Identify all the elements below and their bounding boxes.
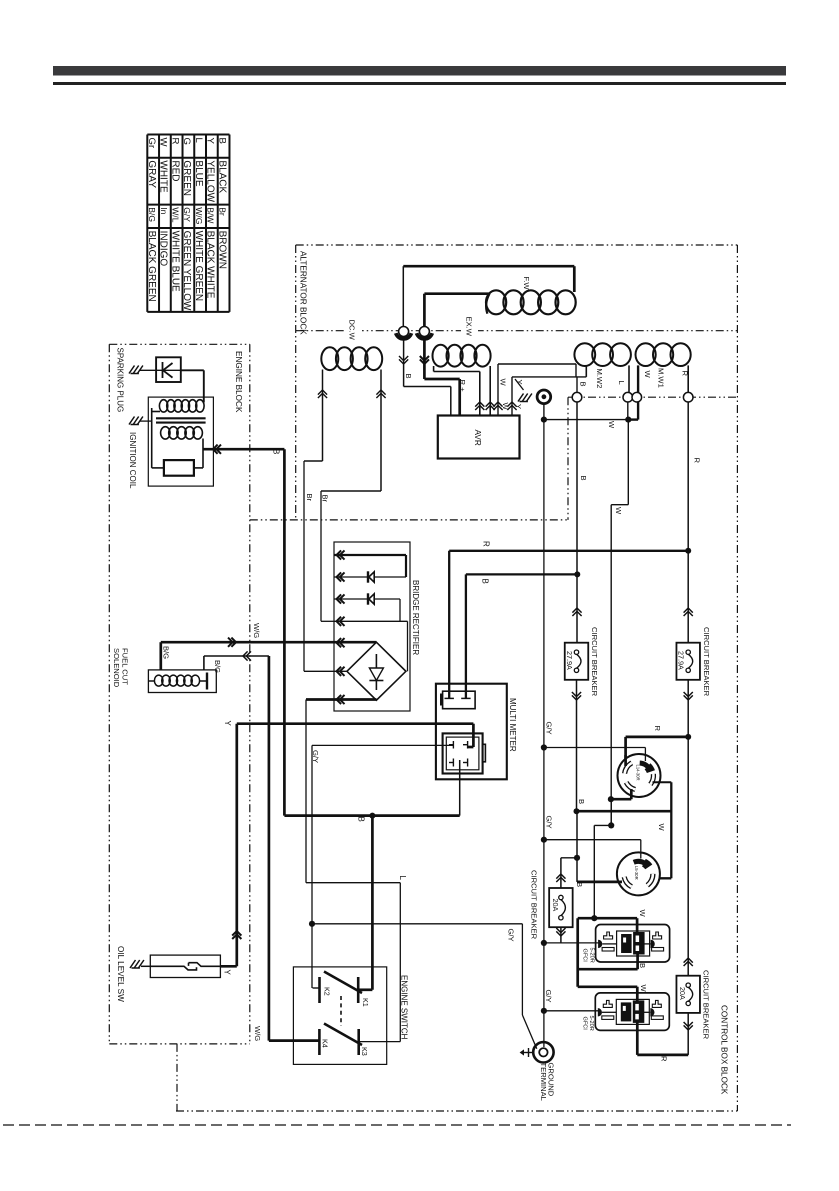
svg-text:YELLOW: YELLOW <box>205 160 216 202</box>
svg-text:OIL LEVEL SW: OIL LEVEL SW <box>116 946 125 1002</box>
wire W from receptacle bottom <box>594 789 631 918</box>
wire B brush to AVR <box>399 338 451 416</box>
svg-text:SOLENOID: SOLENOID <box>112 648 121 688</box>
svg-text:L5-30R: L5-30R <box>634 866 639 880</box>
wire R to receptacle <box>626 737 689 760</box>
svg-text:WHITE GREEN: WHITE GREEN <box>193 231 204 302</box>
svg-text:CIRCUIT BREAKER: CIRCUIT BREAKER <box>529 870 538 940</box>
svg-text:W: W <box>638 910 647 918</box>
wire R multimeter sense <box>449 551 688 699</box>
svg-text:GREEN: GREEN <box>181 160 192 196</box>
wire W/G to bridge rectifier <box>161 638 377 647</box>
diode D2 <box>368 593 374 604</box>
svg-text:L14-30R: L14-30R <box>636 765 641 781</box>
svg-text:B: B <box>579 476 588 481</box>
sparking plug gap electrode ground <box>129 366 143 374</box>
svg-text:Br: Br <box>320 495 329 503</box>
main winding M.W2 <box>574 343 631 392</box>
ignition coil primary winding <box>161 427 203 439</box>
svg-text:B: B <box>357 817 366 822</box>
wire W main <box>611 420 628 826</box>
wire R+ brush to AVR <box>420 338 460 416</box>
svg-text:B/G: B/G <box>147 207 157 222</box>
wire Br2 <box>321 370 386 622</box>
svg-text:W: W <box>614 507 623 515</box>
svg-text:GFCI: GFCI <box>582 949 588 963</box>
ignition coil box <box>148 397 213 486</box>
spark plug cap (diode box) <box>156 357 181 382</box>
svg-text:ALTERNATOR BLOCK: ALTERNATOR BLOCK <box>299 251 308 335</box>
svg-text:B: B <box>577 799 586 804</box>
frame ground of Y <box>515 379 532 402</box>
exciter winding EX.W <box>433 345 495 416</box>
wire W chain to GFCI2 <box>578 987 638 1055</box>
wire G/Y to GFCI1 <box>544 942 599 944</box>
svg-text:20A: 20A <box>678 987 687 1000</box>
svg-text:W: W <box>657 824 666 832</box>
multimeter box <box>436 684 507 780</box>
svg-text:CIRCUIT BREAKER: CIRCUIT BREAKER <box>702 627 711 697</box>
svg-text:G/Y: G/Y <box>182 207 192 222</box>
svg-text:W: W <box>158 138 169 148</box>
bridge connector arrows <box>337 550 345 704</box>
svg-text:BROWN: BROWN <box>216 231 227 269</box>
svg-text:W/G: W/G <box>252 623 261 638</box>
wire Br1 <box>304 370 327 672</box>
svg-text:AVR: AVR <box>473 430 482 446</box>
svg-text:MULTI METER: MULTI METER <box>508 698 517 752</box>
junction R <box>685 548 691 554</box>
coil left common wire <box>151 408 153 468</box>
mechanical link <box>340 996 342 1026</box>
connector at 636.8 <box>632 392 642 402</box>
ignition coil core <box>156 418 206 422</box>
wire L to neutral <box>627 402 629 420</box>
resistor (ignition) <box>152 460 203 476</box>
switch contact K4 <box>318 1029 321 1055</box>
wire colour legend table <box>146 135 229 312</box>
svg-text:B: B <box>404 374 413 379</box>
svg-text:B: B <box>272 449 281 454</box>
wire G/Y to plug <box>312 744 453 746</box>
svg-text:B: B <box>575 882 584 887</box>
svg-text:R: R <box>660 1056 669 1062</box>
svg-text:W/G: W/G <box>253 1026 262 1041</box>
svg-text:F.W: F.W <box>522 277 531 291</box>
svg-text:B: B <box>579 382 588 387</box>
svg-text:G/Y: G/Y <box>544 990 553 1003</box>
svg-text:27.9A: 27.9A <box>565 651 574 670</box>
oil level switch <box>150 955 220 977</box>
svg-text:M.W2: M.W2 <box>595 369 604 389</box>
wire B from plug <box>459 760 461 816</box>
svg-text:R: R <box>681 371 690 377</box>
svg-text:L: L <box>193 138 204 144</box>
wire G/Y to L14 ground pin <box>544 748 646 762</box>
wire R main <box>684 402 693 643</box>
wire R to 20A breaker 2 <box>684 737 693 976</box>
GFCI receptacle 2 <box>595 993 669 1031</box>
svg-text:B: B <box>481 579 490 584</box>
svg-text:GREEN YELLOW: GREEN YELLOW <box>181 231 192 311</box>
wire B to engine switch K1 <box>358 816 372 990</box>
header rule thin <box>53 82 786 85</box>
svg-text:R: R <box>653 726 662 732</box>
bridge rectifier box <box>334 542 410 711</box>
svg-text:R: R <box>482 541 491 547</box>
svg-text:G/Y: G/Y <box>545 722 554 735</box>
oil level switch ground <box>130 960 150 968</box>
wire B multimeter sense <box>466 574 577 698</box>
wire R breaker out <box>684 680 693 737</box>
svg-text:5-20R: 5-20R <box>588 1016 594 1031</box>
wire B ignition output <box>203 445 284 454</box>
wire B M.W2 <box>576 377 578 392</box>
rotor boundary line <box>296 330 738 332</box>
GFCI receptacle 1 <box>596 925 670 963</box>
svg-text:EX.W: EX.W <box>465 317 474 337</box>
circuit breaker 27.9A (B) <box>565 643 589 680</box>
svg-text:B: B <box>216 138 227 144</box>
svg-text:G/Y: G/Y <box>545 816 554 829</box>
wire L from bridge to K3 <box>306 700 400 1042</box>
wire plug to cap <box>140 369 156 371</box>
svg-text:R +: R + <box>458 380 467 393</box>
wire 20A out <box>556 927 565 943</box>
switch contact K2 <box>313 977 320 1003</box>
switch contact K1 <box>324 972 362 1004</box>
wire W to GFCI1 <box>578 918 637 935</box>
svg-text:Y: Y <box>223 721 232 727</box>
slip ring 2 <box>417 294 433 339</box>
wire Y from oil switch <box>220 724 241 967</box>
svg-text:GRAY: GRAY <box>146 160 157 188</box>
control box block bottom border <box>176 1044 737 1111</box>
svg-text:SPARKING PLUG: SPARKING PLUG <box>116 348 125 413</box>
receptacle L14-30R <box>618 754 661 797</box>
svg-text:IGNITION COIL: IGNITION COIL <box>128 432 137 489</box>
svg-text:W: W <box>607 421 616 429</box>
svg-text:B/W: B/W <box>206 207 216 224</box>
svg-text:W: W <box>639 985 648 993</box>
svg-text:L: L <box>617 381 626 385</box>
svg-text:B/G: B/G <box>213 660 222 673</box>
svg-text:27.9A: 27.9A <box>677 651 686 670</box>
connector at 577 <box>572 392 582 402</box>
wire Br1 to bridge <box>304 670 347 672</box>
svg-text:R: R <box>169 138 180 145</box>
wire G/Y to GFCI2 <box>544 1010 598 1012</box>
multimeter connector plug <box>443 733 486 773</box>
svg-text:Y: Y <box>514 404 523 409</box>
svg-text:RED: RED <box>169 160 180 181</box>
svg-text:BRIDGE RECTIFIER: BRIDGE RECTIFIER <box>411 580 420 655</box>
svg-text:W/G: W/G <box>194 207 204 224</box>
wire G/Y multimeter to ground / K2 <box>312 745 537 1048</box>
slip ring 1 <box>396 327 412 339</box>
circuit breaker 27.9A (R) <box>676 643 700 680</box>
engine block border <box>109 344 250 1044</box>
bridge diamond <box>347 642 406 700</box>
svg-text:BLACK GREEN: BLACK GREEN <box>146 231 157 302</box>
junction B <box>574 571 580 577</box>
svg-text:Gr: Gr <box>146 138 157 149</box>
svg-text:5-20R: 5-20R <box>588 948 594 963</box>
svg-text:In: In <box>159 207 169 214</box>
wire neutral bond to W <box>544 419 628 421</box>
bridge internal wiring <box>334 555 408 671</box>
svg-text:Y: Y <box>205 138 216 145</box>
svg-text:R: R <box>693 458 702 464</box>
svg-text:M.W1: M.W1 <box>657 368 666 388</box>
diode D1 <box>368 571 374 582</box>
wire B vertical to engine switch <box>284 449 459 815</box>
svg-text:K4: K4 <box>321 1039 330 1048</box>
bottom dashed separator <box>3 1124 791 1126</box>
multimeter meter terminals <box>440 691 475 709</box>
svg-text:BLUE: BLUE <box>193 160 204 186</box>
svg-text:GFCI: GFCI <box>581 1017 587 1031</box>
svg-text:BLACK: BLACK <box>216 160 227 193</box>
svg-text:G/Y: G/Y <box>311 750 320 763</box>
svg-text:K3: K3 <box>360 1047 369 1056</box>
engine switch box <box>293 967 386 1065</box>
ground terminal <box>520 1042 554 1062</box>
field winding F.W <box>403 266 575 326</box>
svg-text:Y: Y <box>223 970 232 976</box>
svg-text:WHITE BLUE: WHITE BLUE <box>169 231 180 292</box>
wire B main <box>572 402 581 643</box>
neutral bond terminal <box>537 390 551 420</box>
svg-text:B/G: B/G <box>161 646 170 659</box>
main winding M.W1 <box>628 343 690 419</box>
svg-text:W/L: W/L <box>170 207 180 222</box>
junction B <box>369 813 375 819</box>
wire W receptacle right <box>650 782 671 878</box>
AVR box <box>438 416 520 459</box>
svg-text:W: W <box>499 379 508 387</box>
wire cap to ignition coil secondary <box>181 370 204 402</box>
connector at 688.2 <box>683 392 693 402</box>
wire B to L5 bottom <box>577 811 622 882</box>
wire W sense to AVR <box>493 364 576 416</box>
svg-text:CIRCUIT BREAKER: CIRCUIT BREAKER <box>701 970 710 1040</box>
header bar thick <box>53 66 786 76</box>
alternator block border <box>250 245 738 1111</box>
bridge internal diode <box>369 654 383 690</box>
svg-text:W: W <box>643 371 652 379</box>
wire B breaker out <box>572 680 581 811</box>
svg-text:CIRCUIT BREAKER: CIRCUIT BREAKER <box>590 627 599 697</box>
circuit breaker 20A <box>549 888 573 927</box>
primary ground electrode <box>129 417 152 425</box>
wire B chain below GFCI1 <box>578 918 638 987</box>
svg-text:ENGINE BLOCK: ENGINE BLOCK <box>234 351 243 413</box>
svg-text:TERMINAL: TERMINAL <box>539 1063 548 1101</box>
fuel cut solenoid <box>148 670 216 693</box>
junction G/Y <box>309 921 315 927</box>
svg-text:WHITE: WHITE <box>158 160 169 193</box>
svg-text:Br: Br <box>217 207 227 216</box>
svg-text:DC.W: DC.W <box>348 320 357 341</box>
dc winding DC.W <box>321 347 382 370</box>
wire G/Y main vertical <box>543 420 545 1047</box>
svg-text:BLACK WHITE: BLACK WHITE <box>205 231 216 299</box>
svg-text:G/Y: G/Y <box>507 929 516 942</box>
circuit breaker 20A (R) <box>676 976 700 1013</box>
wire to 20A breaker <box>556 858 577 888</box>
wire B/G solenoid left <box>159 642 162 670</box>
wire 20A out to GFCI2 <box>637 1013 693 1055</box>
primary right wire <box>202 439 204 468</box>
switch contact K3 <box>324 1024 362 1056</box>
ignition coil secondary winding <box>152 400 204 412</box>
wire Y to multimeter <box>237 724 474 747</box>
wire G/Y to L5 <box>544 840 641 859</box>
wire L from diamond <box>306 698 376 701</box>
svg-text:CONTROL BOX BLOCK: CONTROL BOX BLOCK <box>720 1005 729 1095</box>
wire B horizontal <box>577 810 672 813</box>
svg-text:Br: Br <box>305 494 314 502</box>
connector at 627.8 <box>623 392 633 402</box>
svg-text:20A: 20A <box>551 899 560 912</box>
svg-text:L: L <box>398 876 407 881</box>
svg-text:G: G <box>181 138 192 145</box>
svg-text:K1: K1 <box>361 998 370 1007</box>
wire Y sense to AVR <box>507 377 586 416</box>
receptacle L5-30R <box>617 852 660 895</box>
svg-text:INDIGO: INDIGO <box>158 231 169 267</box>
wire B/G solenoid right <box>204 651 269 670</box>
svg-text:B: B <box>638 963 647 968</box>
svg-text:K2: K2 <box>323 987 332 996</box>
wire Br2 row <box>321 620 334 622</box>
wire W/G to engine switch K4 <box>269 656 320 1041</box>
